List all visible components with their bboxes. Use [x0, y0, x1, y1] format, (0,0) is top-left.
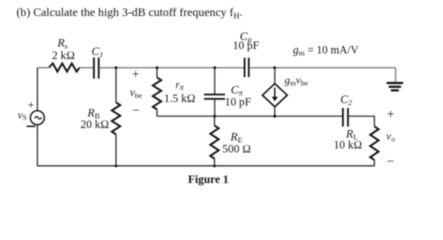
wire: RE bottom lead: [214, 116, 216, 125]
node: junction at Cpi top: [213, 66, 216, 69]
figure caption: [188, 174, 229, 186]
label RE value 500 Ohm: [222, 143, 251, 155]
label vo minus: [387, 154, 394, 169]
svg-text:+: +: [132, 66, 139, 81]
node: junction RE bottom: [213, 165, 216, 168]
dependent current source gm*vbe (diamond): [262, 84, 287, 107]
svg-text:vo: vo: [386, 131, 395, 144]
svg-text:+: +: [387, 106, 394, 121]
resistor r_pi (1.5 kOhm): [153, 78, 161, 110]
label vbe minus: [132, 103, 139, 118]
wire: top rail Cmu to ground corner: [249, 67, 395, 69]
label vbe plus: [132, 66, 139, 81]
label vo plus: [387, 106, 394, 121]
label vs: [18, 110, 27, 122]
svg-text:500 Ω: 500 Ω: [222, 143, 251, 155]
label Cpi value 10 pF: [225, 96, 251, 108]
label gm vbe: [285, 75, 309, 88]
resistor RE (500 Ohm): [210, 126, 218, 159]
wire: RB bottom lead: [115, 134, 117, 166]
wire: Cpi top lead: [214, 68, 216, 94]
wire: bottom rail: [37, 165, 374, 167]
wire: source top lead: [36, 68, 38, 111]
svg-text:C1: C1: [92, 44, 104, 59]
wire: top rail Rs to C1: [79, 67, 93, 69]
wire: dependent source bottom lead: [274, 107, 276, 116]
node: junction Cpi bottom / RE top: [213, 115, 216, 118]
wire: ground stub: [395, 68, 397, 82]
svg-text:(b) Calculate the high 3-dB cu: (b) Calculate the high 3-dB cutoff frequ…: [17, 5, 243, 21]
label C2: [340, 92, 352, 107]
svg-text:−: −: [132, 103, 139, 118]
wire: source bottom lead: [36, 125, 38, 166]
label vbe: [130, 87, 143, 100]
node: B junction at RB: [115, 66, 118, 69]
label Cmu: [240, 29, 252, 44]
label r_pi: [176, 80, 185, 92]
problem statement text: [17, 5, 243, 21]
label RL value 10 kOhm: [334, 140, 363, 152]
svg-text:rπ: rπ: [176, 80, 185, 92]
node: junction at r_pi: [156, 66, 159, 69]
wire: RB top lead: [115, 68, 117, 103]
node: collector junction at dependent source: [273, 66, 276, 69]
label Cmu value 10 pF: [233, 40, 259, 52]
wire: r_pi top lead: [156, 68, 158, 78]
label Rs value 2 kOhm: [52, 50, 75, 62]
wire: Cpi bottom lead: [214, 99, 216, 116]
label vs minus: [27, 125, 36, 127]
wire: RL bottom lead: [373, 160, 375, 166]
label RB value 20 kOhm: [81, 119, 110, 131]
wire: RE to bottom rail: [214, 159, 216, 166]
svg-text:gmvbe: gmvbe: [285, 75, 309, 88]
svg-text:vbe: vbe: [130, 87, 143, 100]
svg-text:−: −: [387, 154, 394, 169]
label gm value: [293, 45, 359, 58]
node: junction dep source / emitter rail: [273, 115, 276, 118]
svg-text:10 pF: 10 pF: [225, 96, 251, 108]
svg-text:RE: RE: [230, 130, 243, 144]
capacitor C1: [94, 58, 99, 79]
label RE: [230, 130, 243, 144]
capacitor Cpi: [204, 95, 225, 99]
svg-text:vS: vS: [18, 110, 27, 122]
label r_pi value 1.5 kOhm: [164, 93, 196, 105]
wire: emitter rail: [157, 115, 342, 117]
capacitor C2: [343, 108, 348, 127]
resistor RB (20 kOhm): [112, 102, 120, 134]
svg-text:Cπ: Cπ: [231, 83, 244, 98]
label RB: [87, 106, 100, 120]
svg-text:gm = 10 mA/V: gm = 10 mA/V: [293, 45, 359, 58]
svg-text:10 kΩ: 10 kΩ: [334, 140, 363, 152]
node: junction RB bottom: [115, 165, 118, 168]
svg-text:2 kΩ: 2 kΩ: [52, 50, 75, 62]
label C1: [92, 44, 104, 59]
label RL: [345, 127, 358, 141]
voltage source vs: [30, 111, 44, 125]
capacitor Cmu (in series on top rail): [245, 58, 249, 77]
label Rs: [57, 37, 68, 51]
resistor Rs (2 kOhm): [49, 63, 80, 71]
wire: C2 to RL corner: [349, 116, 375, 126]
label Cpi: [231, 83, 244, 98]
wire: r_pi bottom lead: [156, 109, 158, 116]
svg-text:20 kΩ: 20 kΩ: [81, 119, 110, 131]
wire: top rail from source corner to Rs: [37, 67, 48, 69]
svg-text:1.5 kΩ: 1.5 kΩ: [164, 93, 196, 105]
dependent source arrow (downward): [272, 88, 278, 102]
label vo: [386, 131, 395, 144]
svg-text:C2: C2: [340, 92, 352, 107]
svg-text:+: +: [28, 99, 35, 111]
wire: top rail C1 to Cmu (node B segment): [99, 67, 244, 69]
svg-text:Figure 1: Figure 1: [188, 174, 229, 186]
wire: dependent source top lead: [274, 68, 276, 84]
svg-text:10 pF: 10 pF: [233, 40, 259, 52]
svg-text:Rs: Rs: [57, 37, 68, 51]
ground: [387, 83, 404, 90]
label vs plus: [28, 99, 35, 111]
resistor RL (10 kOhm): [370, 126, 378, 160]
